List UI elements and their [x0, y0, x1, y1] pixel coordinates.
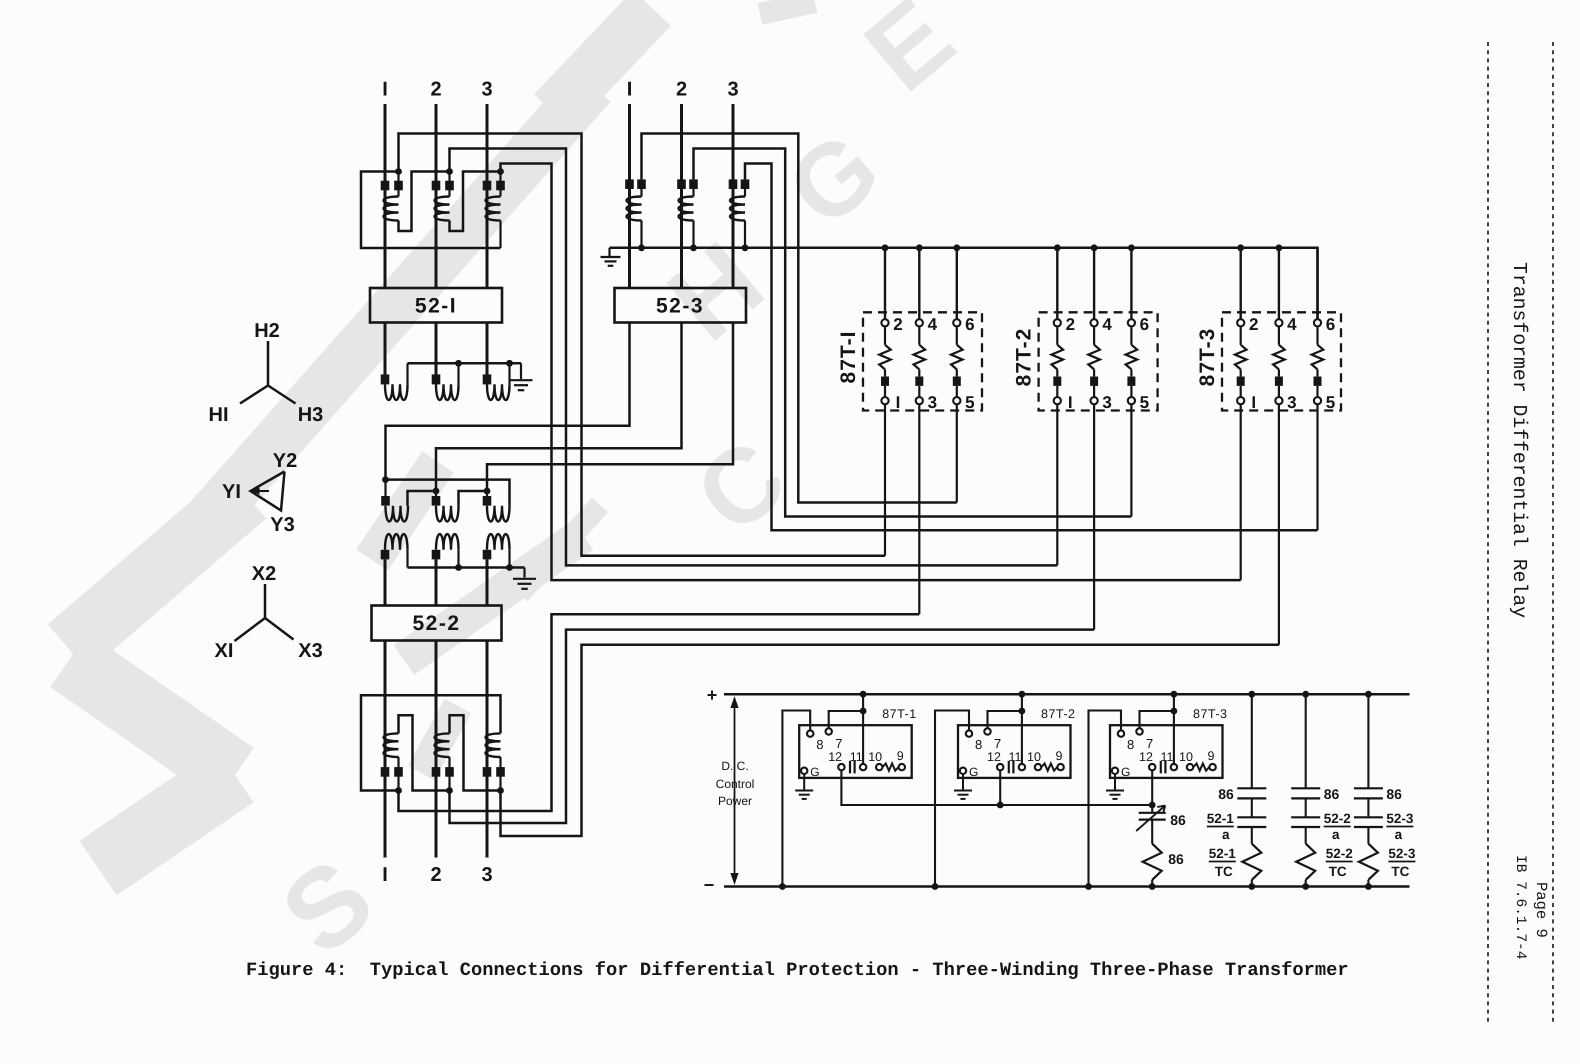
- wire col 52-1 low: [1251, 827, 1253, 844]
- wire 87T-3 winding 1 mid: [1240, 369, 1242, 376]
- watermark stroke: [404, 535, 583, 660]
- relay contact box 87T-3: [1110, 725, 1223, 778]
- wire CT-A3 secondary lead: [499, 172, 501, 197]
- ct coil CT-C1: [384, 733, 399, 757]
- svg-text:G: G: [810, 765, 819, 779]
- node delta Y3: [484, 488, 491, 495]
- wire H winding phase 3 riser: [508, 363, 510, 384]
- svg-text:XI: XI: [215, 640, 234, 662]
- label underline: [1324, 826, 1351, 828]
- arrow Y1 reference: [257, 490, 269, 492]
- polarity mark 87T-2 w2: [1090, 377, 1098, 386]
- ct coil CT-B2: [679, 197, 694, 221]
- wire X neutral down: [523, 568, 525, 578]
- wire col 52-1 mid: [1251, 798, 1253, 817]
- wire CT-B2 tap to 87T-2 term 5: [694, 149, 1132, 517]
- svg-text:HI: HI: [209, 404, 229, 426]
- svg-text:6: 6: [1326, 315, 1335, 334]
- node CT-A2 junction: [446, 168, 453, 175]
- wire 87T-3 winding 1 exit: [1240, 404, 1242, 580]
- terminal 12 of 87T-2: [997, 764, 1003, 770]
- node bus tap 87T-1.0: [882, 244, 889, 251]
- polarity mark CT-C3 primary: [483, 767, 492, 777]
- winding Y phase 3: [487, 506, 510, 522]
- svg-text:Control: Control: [716, 777, 755, 791]
- terminal 11 of 87T-1: [860, 764, 866, 770]
- terminal 11 of 87T-3: [1171, 764, 1177, 770]
- polarity mark CT-A2 primary: [432, 181, 441, 191]
- contact 86a bar2 col 52-3: [1354, 797, 1383, 799]
- node positive rail j3: [1171, 691, 1178, 698]
- wire delta link 2-3: [459, 491, 488, 506]
- polarity mark 87T-1 w1: [881, 377, 889, 386]
- terminal 8 of 87T-2 dc: [966, 730, 972, 736]
- terminal 7 of 87T-3 dc: [1136, 728, 1142, 734]
- wire CT-A1 secondary lead: [397, 172, 399, 197]
- node positive rail col 52-1: [1248, 691, 1255, 698]
- margin dashed line right: [1552, 42, 1554, 1022]
- wire CT-B3 bottom lead: [744, 221, 746, 248]
- wire phase 3 (top-middle): [732, 104, 735, 288]
- restraint coil 87T-2 w3: [1126, 345, 1138, 370]
- wire CT-C3 tap to 87T-3 term 3: [501, 645, 1279, 836]
- polarity mark CT-B2 primary: [677, 179, 686, 189]
- svg-text:IB 7.6.1.7-4: IB 7.6.1.7-4: [1512, 855, 1528, 959]
- svg-text:8: 8: [975, 737, 982, 752]
- node negative rail j1: [779, 883, 786, 890]
- 86 coil bar a: [1139, 812, 1166, 814]
- wire col 52-2 low: [1305, 827, 1307, 844]
- relay 87T-1 dashed case: [863, 312, 982, 410]
- polarity mark CT-C1 secondary: [394, 767, 403, 777]
- ground 87T-1 case: [795, 791, 813, 799]
- svg-text:8: 8: [816, 737, 823, 752]
- polarity mark 87T-2 w3: [1127, 377, 1135, 386]
- svg-text:52-2: 52-2: [1324, 811, 1351, 826]
- wire positive rail to term 11 of 87T-1: [862, 694, 864, 764]
- polarity mark CT-C2 secondary: [445, 767, 454, 777]
- polarity mark H winding phase 2: [432, 374, 441, 384]
- terminal 7 of 87T-2 dc: [984, 728, 990, 734]
- wire H neutral bus: [408, 362, 522, 365]
- wire CT-B2 lead: [692, 189, 694, 197]
- contact 52-1a bar2: [1237, 826, 1266, 828]
- terminal 8 of 87T-1 dc: [807, 730, 813, 736]
- svg-text:TC: TC: [1329, 864, 1347, 879]
- node bus tap 87T-1.1: [916, 244, 923, 251]
- wire 87T-1 term 7 link: [829, 711, 863, 728]
- wire 87T-1 winding 3: [956, 326, 958, 344]
- wire phase 3 (top-left): [486, 104, 489, 288]
- svg-text:7: 7: [835, 736, 842, 751]
- wire phase 2 below 52-1: [435, 323, 438, 375]
- wire positive rail to term 11 of 87T-3: [1173, 694, 1175, 764]
- label underline: [1207, 826, 1234, 828]
- wire phase 2 below 52-2: [435, 641, 438, 858]
- wire 86 coil to resistor: [1151, 820, 1153, 844]
- node H neutral j2: [506, 360, 513, 367]
- wire CT-C2 tap to 87T-2 term 3: [450, 630, 1095, 823]
- wire 87T-2 winding 2 low: [1093, 386, 1095, 397]
- relay 87T-3 dashed case: [1222, 312, 1341, 410]
- svg-text:3: 3: [481, 864, 492, 886]
- wire 52-3 phase 2 to delta: [436, 323, 682, 492]
- trip coil 52-1/TC: [1242, 844, 1261, 880]
- terminal 5 of 87T-2: [1128, 397, 1135, 404]
- terminal 2 of 87T-1: [881, 319, 888, 326]
- wire G to ground 87T-1: [803, 774, 805, 790]
- node 7/11 junction 87T-1: [860, 708, 867, 715]
- relay contact box 87T-2: [958, 725, 1071, 778]
- arrowhead Y1: [252, 487, 260, 494]
- node 7/11 junction 87T-2: [1019, 708, 1026, 715]
- relay contact box 87T-1: [799, 725, 912, 778]
- wire DC negative rail: [724, 885, 1410, 888]
- polarity mark H winding phase 1: [381, 374, 390, 384]
- terminal 9 of 87T-2: [1057, 764, 1063, 770]
- polarity mark CT-B3 secondary: [741, 179, 750, 189]
- node X neutral j2: [506, 564, 513, 571]
- svg-text:9: 9: [1208, 749, 1215, 763]
- terminal 3 of 87T-3: [1275, 397, 1282, 404]
- svg-text:3: 3: [727, 79, 738, 101]
- wire 87T-1 term 8 to negative rail: [782, 711, 810, 887]
- wire 52-3 phase 3 to delta: [487, 323, 733, 492]
- wire CT-A1 to node A2: [399, 172, 450, 232]
- terminal 10 of 87T-3: [1187, 764, 1193, 770]
- wire H winding phase 1 riser: [406, 363, 408, 384]
- svg-text:X2: X2: [252, 563, 276, 585]
- arrowhead top: [730, 696, 738, 708]
- svg-text:3: 3: [1287, 393, 1296, 412]
- terminal 6 of 87T-1: [953, 319, 960, 326]
- wire ground bus stem: [608, 248, 610, 256]
- terminal 3 of 87T-2: [1091, 397, 1098, 404]
- wire 87T-3 winding 3 low: [1316, 386, 1318, 397]
- wire col 52-2 bottom: [1305, 880, 1307, 887]
- svg-text:I: I: [896, 393, 901, 412]
- terminal 4 of 87T-2: [1091, 319, 1098, 326]
- svg-text:52-I: 52-I: [415, 295, 457, 318]
- svg-text:2: 2: [893, 315, 902, 334]
- watermark stroke: [69, 660, 235, 775]
- node negative rail j3: [1085, 883, 1092, 890]
- wire col 52-2 mid: [1305, 798, 1307, 817]
- polarity mark CT-C2 primary: [432, 767, 441, 777]
- node H neutral j1: [455, 360, 462, 367]
- wire phase 3 below 52-2: [486, 641, 489, 858]
- svg-text:3: 3: [1102, 393, 1111, 412]
- svg-text:3: 3: [481, 79, 492, 101]
- terminal 2 of 87T-2: [1054, 319, 1061, 326]
- breaker 52-2: [372, 606, 502, 641]
- svg-text:86: 86: [1218, 786, 1234, 802]
- node CT-B1 on ground bus: [638, 244, 645, 251]
- wire 87T-3 term 8 to negative rail: [1089, 711, 1122, 887]
- svg-text:3: 3: [928, 393, 937, 412]
- svg-text:I: I: [1068, 393, 1073, 412]
- polarity mark CT-A2 secondary: [445, 181, 454, 191]
- contact 52-1a bar1: [1237, 816, 1266, 818]
- restraint coil 87T-2 w1: [1052, 345, 1064, 370]
- wire 87T-2 winding 2: [1093, 326, 1095, 344]
- wire X winding riser 2: [457, 550, 459, 568]
- terminal 2 of 87T-3: [1237, 319, 1244, 326]
- wire CT-A3 tap to 87T-3 term 1: [501, 164, 1241, 581]
- svg-text:5: 5: [965, 393, 974, 412]
- svg-text:86: 86: [1170, 812, 1186, 828]
- wire 87T-3 winding 1 low: [1240, 386, 1242, 397]
- terminal 4 of 87T-1: [916, 319, 923, 326]
- vector diagram Y delta: [251, 472, 285, 511]
- contact 52-3a bar2: [1354, 826, 1383, 828]
- svg-text:2: 2: [430, 864, 441, 886]
- svg-text:86: 86: [1386, 786, 1402, 802]
- polarity mark 87T-3 w1: [1237, 377, 1245, 386]
- wire 87T-1 winding 1 mid: [884, 369, 886, 376]
- restraint coil 87T-3 w1: [1235, 345, 1247, 370]
- vector diagram X wye: [235, 584, 294, 641]
- terminal 9 of 87T-1: [899, 764, 905, 770]
- wire phase 1 below 52-1: [384, 323, 387, 375]
- ct coil CT-A3: [486, 197, 501, 221]
- svg-text:Power: Power: [718, 794, 752, 808]
- svg-text:11: 11: [850, 750, 863, 764]
- label underline: [1326, 861, 1353, 863]
- node negative rail col 52-2: [1302, 883, 1309, 890]
- ct coil CT-A2: [435, 197, 450, 221]
- wire col 52-3 bottom: [1367, 880, 1369, 887]
- svg-text:2: 2: [1249, 315, 1258, 334]
- node CT-A3 junction: [497, 168, 504, 175]
- svg-text:H2: H2: [254, 320, 280, 342]
- svg-text:10: 10: [1027, 750, 1041, 764]
- svg-text:4: 4: [928, 315, 938, 334]
- svg-text:a: a: [1222, 827, 1230, 842]
- label underline: [1209, 861, 1236, 863]
- svg-text:YI: YI: [222, 481, 241, 503]
- wire 87T-1 term 12 down: [841, 770, 1152, 805]
- winding X phase 3: [487, 534, 510, 550]
- wire ground bus to relays: [610, 248, 1318, 319]
- node bus tap 87T-2.1: [1091, 244, 1098, 251]
- node delta Y2: [433, 488, 440, 495]
- wire X winding lead 1: [384, 559, 387, 605]
- terminal 10 of 87T-1: [876, 764, 882, 770]
- svg-text:86: 86: [1324, 786, 1340, 802]
- wire positive rail to term 11 of 87T-2: [1021, 694, 1023, 764]
- contact 87T-1 bar b: [853, 761, 855, 774]
- wire 87T-3 winding 1: [1240, 326, 1242, 344]
- node trip bus j3: [1149, 802, 1156, 809]
- polarity mark 87T-3 w3: [1314, 377, 1322, 386]
- node positive rail j2: [1019, 691, 1026, 698]
- 86 coil bar b: [1139, 818, 1166, 820]
- arrow DC control span: [734, 701, 736, 880]
- svg-text:4: 4: [1287, 315, 1297, 334]
- node trip bus j2: [997, 802, 1004, 809]
- wire delta link 1-2: [408, 491, 437, 506]
- wire H neutral to ground: [520, 363, 522, 379]
- wire col 52-3 upper: [1367, 694, 1369, 788]
- svg-text:Y3: Y3: [270, 514, 294, 536]
- wire col 52-1 upper: [1251, 694, 1253, 788]
- terminal 9 of 87T-3: [1209, 764, 1215, 770]
- polarity mark 87T-2 w1: [1053, 377, 1061, 386]
- svg-text:10: 10: [1179, 750, 1193, 764]
- node negative rail j2: [932, 883, 939, 890]
- polarity mark 87T-1 w3: [953, 377, 961, 386]
- terminal 5 of 87T-1: [953, 397, 960, 404]
- seal-in coil 87T-3: [1193, 764, 1209, 771]
- polarity mark X winding 2: [432, 550, 441, 560]
- wire G to ground 87T-3: [1114, 774, 1116, 790]
- wire DC positive rail: [724, 693, 1410, 696]
- svg-text:9: 9: [1056, 749, 1063, 763]
- terminal 1 of 87T-1: [881, 397, 888, 404]
- terminal 5 of 87T-3: [1314, 397, 1321, 404]
- wire 87T-1 winding 3 low: [956, 386, 958, 397]
- svg-text:+: +: [707, 685, 718, 705]
- winding X phase 1: [385, 534, 408, 550]
- restraint coil 87T-1 w2: [914, 345, 926, 370]
- wire CT-C2 bottom lead: [448, 757, 450, 791]
- svg-text:8: 8: [1127, 737, 1134, 752]
- wire 87T-1 winding 1 exit: [884, 404, 886, 556]
- wire 87T-1 winding 2 mid: [918, 369, 920, 376]
- contact 86a bar2 col 52-1: [1237, 797, 1266, 799]
- winding H phase 1: [385, 384, 408, 400]
- watermark stroke: [760, 2, 815, 14]
- polarity mark CT-B1 secondary: [637, 179, 646, 189]
- svg-text:52-3: 52-3: [656, 295, 704, 318]
- polarity mark 87T-3 w2: [1275, 377, 1283, 386]
- wire 87T-2 winding 1 low: [1056, 386, 1058, 397]
- wire phase 1 (top-left): [384, 104, 387, 288]
- svg-text:12: 12: [987, 750, 1001, 764]
- svg-text:5: 5: [1140, 393, 1149, 412]
- wire 87T-2 winding 3 exit: [1130, 404, 1132, 516]
- wire CT-C3 bottom lead: [499, 757, 501, 791]
- ct coil CT-B1: [627, 197, 642, 221]
- wire to 86 coil: [1151, 805, 1153, 813]
- svg-text:52-1: 52-1: [1209, 846, 1237, 861]
- svg-text:12: 12: [1139, 750, 1153, 764]
- resistor 86: [1143, 844, 1162, 880]
- svg-text:H3: H3: [298, 404, 324, 426]
- wire 87T-3 winding 2: [1278, 326, 1280, 344]
- wire X neutral bus: [408, 566, 525, 569]
- svg-text:7: 7: [994, 736, 1001, 751]
- wire 87T-3 winding 3 mid: [1316, 369, 1318, 376]
- 86 coil adjust arrow: [1136, 806, 1165, 832]
- arrowhead bottom: [730, 873, 738, 885]
- wire phase 1 below 52-2: [384, 641, 387, 858]
- wire delta closing link: [386, 480, 510, 506]
- node bus tap 87T-2.2: [1128, 244, 1135, 251]
- polarity mark delta winding 2: [432, 496, 441, 506]
- wire col 52-2 upper: [1305, 694, 1307, 788]
- wire CT-B1 bottom lead: [640, 221, 642, 248]
- ground X winding: [513, 579, 536, 589]
- svg-text:TC: TC: [1215, 864, 1233, 879]
- polarity mark 87T-1 w2: [915, 377, 923, 386]
- wire 87T-3 winding 3 top: [1316, 248, 1318, 319]
- svg-text:I: I: [382, 79, 388, 101]
- vector diagram H wye: [240, 341, 296, 404]
- wire CT-A2 tap to 87T-2 term 1: [450, 149, 1058, 566]
- svg-text:I: I: [1251, 393, 1256, 412]
- watermark stroke: [372, 462, 438, 560]
- svg-text:TC: TC: [1391, 864, 1409, 879]
- trip coil 52-3/TC: [1359, 844, 1378, 880]
- wire 87T-1 winding 1 low: [884, 386, 886, 397]
- svg-text:87T-2: 87T-2: [1013, 328, 1036, 387]
- wire col 52-3 low: [1367, 827, 1369, 844]
- relay 87T-2 dashed case: [1039, 312, 1158, 410]
- wire CT-C1 bottom lead: [397, 757, 399, 791]
- ground 87T-3 case: [1106, 791, 1124, 799]
- node X neutral j1: [455, 564, 462, 571]
- wire CT-C delta loop: [361, 695, 501, 790]
- node bus tap 87T-1.2: [953, 244, 960, 251]
- wire 87T-1 winding 3 mid: [956, 369, 958, 376]
- svg-text:G: G: [1121, 765, 1130, 779]
- winding H phase 3: [487, 384, 510, 400]
- terminal 1 of 87T-2: [1054, 397, 1061, 404]
- restraint coil 87T-2 w2: [1088, 345, 1100, 370]
- wire 87T-2 winding 3 low: [1130, 386, 1132, 397]
- terminal 11 of 87T-2: [1019, 764, 1025, 770]
- breaker 52-1: [370, 288, 502, 323]
- ground H winding: [510, 380, 533, 390]
- svg-text:87T-1: 87T-1: [882, 707, 916, 721]
- polarity mark CT-C3 secondary: [496, 767, 505, 777]
- watermark stroke: [168, 85, 592, 565]
- node CT-C1 junction: [395, 787, 402, 794]
- svg-text:2: 2: [430, 79, 441, 101]
- wire CT-C1 tap to 87T-1 term 3: [399, 614, 920, 811]
- wire CT-C2 to node C3: [450, 715, 501, 790]
- wire phase 1 (top-middle): [628, 104, 631, 288]
- contact 87T-2 bar b: [1012, 761, 1014, 774]
- winding X phase 2: [436, 534, 459, 550]
- wire delta lead 2: [435, 491, 437, 496]
- svg-text:Page 9: Page 9: [1532, 882, 1550, 938]
- svg-text:52-2: 52-2: [412, 612, 460, 635]
- wire 87T-3 winding 2 low: [1278, 386, 1280, 397]
- polarity mark CT-C1 primary: [381, 767, 390, 777]
- wire X winding riser 3: [508, 550, 510, 568]
- svg-text:52-3: 52-3: [1388, 846, 1416, 861]
- terminal 1 of 87T-3: [1237, 397, 1244, 404]
- wire CT-B1 tap to 87T-1 term 5: [642, 134, 957, 503]
- svg-text:Y2: Y2: [273, 450, 297, 472]
- polarity mark CT-A3 primary: [483, 181, 492, 191]
- wire 86 to negative rail: [1151, 880, 1153, 887]
- watermark stroke: [98, 775, 235, 868]
- wire X winding lead 3: [486, 559, 489, 605]
- wire 87T-1 winding 2 exit: [918, 404, 920, 614]
- watermark stroke: [421, 706, 458, 773]
- svg-text:X3: X3: [298, 640, 322, 662]
- wire 87T-2 winding 2 exit: [1093, 404, 1095, 629]
- contact 86a bar2 col 52-2: [1291, 797, 1320, 799]
- wire 87T-3 winding 3: [1316, 326, 1318, 344]
- svg-text:6: 6: [965, 315, 974, 334]
- ct coil CT-B3: [730, 197, 745, 221]
- svg-text:a: a: [1395, 827, 1403, 842]
